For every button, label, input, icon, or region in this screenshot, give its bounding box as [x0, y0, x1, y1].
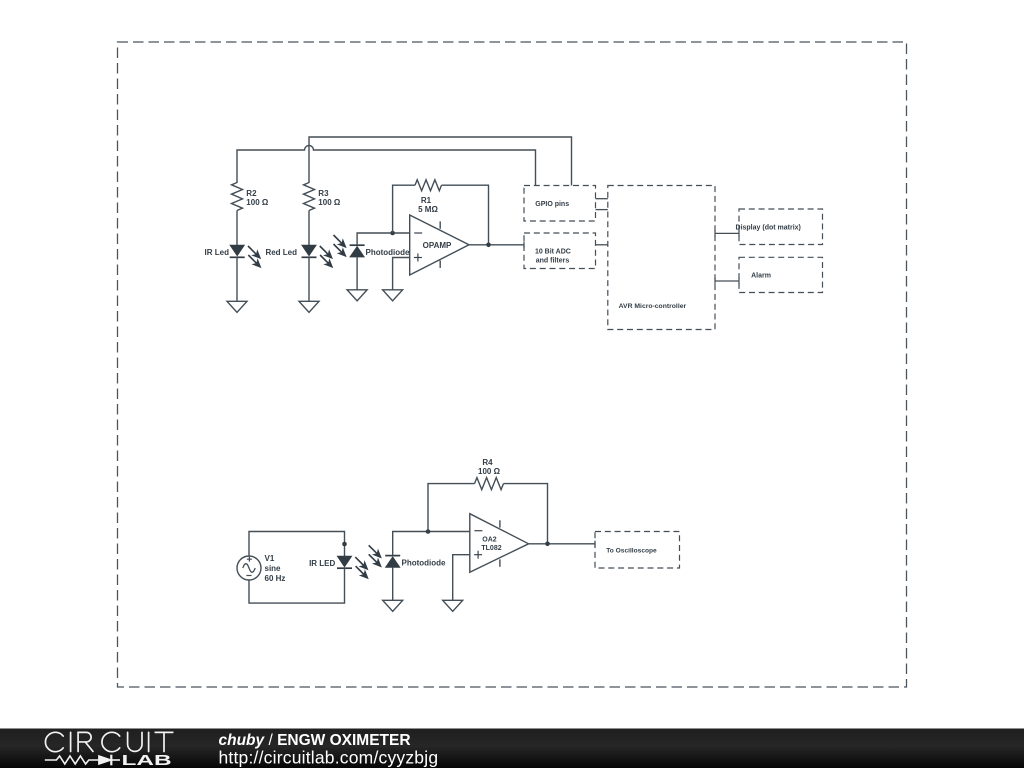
photodiode (bottom): [369, 545, 401, 567]
label To Oscilloscope: [606, 548, 657, 555]
label Photodiode: [366, 248, 411, 257]
label R1: [421, 196, 432, 205]
LED IR Led: [230, 245, 261, 267]
resistor R4: [475, 478, 504, 490]
wire OA2 output to oscilloscope: [529, 541, 595, 547]
svg-text:100 Ω: 100 Ω: [478, 467, 501, 476]
label TL082: [481, 545, 501, 552]
label R1 value 5 MΩ: [418, 205, 438, 214]
svg-text:R1: R1: [421, 196, 432, 205]
wire op-amp output to ADC: [469, 242, 524, 248]
svg-text:AVR Micro-controller: AVR Micro-controller: [619, 303, 687, 310]
wire node B: R3 top to GPIO pin: [309, 137, 572, 186]
op-amp OA2: [470, 514, 529, 573]
wire photodiode to op-amp inverting input: [357, 233, 410, 245]
label IR LED: [309, 559, 335, 568]
svg-text:Red Led: Red Led: [265, 248, 297, 257]
label Alarm: [751, 273, 771, 280]
resistor R1: [415, 180, 442, 191]
wire GPIO to AVR pin 1: [596, 198, 608, 200]
wire IR Led to ground: [236, 257, 238, 301]
svg-text:OPAMP: OPAMP: [423, 241, 452, 250]
label R2: [246, 189, 257, 198]
ground: [443, 600, 463, 611]
svg-text:V1: V1: [265, 554, 275, 563]
svg-text:TL082: TL082: [481, 545, 501, 552]
label R4: [482, 458, 493, 467]
box Display (dot matrix): [739, 209, 823, 245]
wire V1 bottom loop to IR LED cathode: [249, 568, 345, 603]
wire AVR to Alarm: [715, 278, 739, 284]
svg-text:R3: R3: [318, 189, 329, 198]
svg-text:R4: R4: [482, 458, 493, 467]
LED IR LED (bottom): [337, 556, 368, 578]
label V1: [265, 554, 275, 563]
box To Oscilloscope: [595, 532, 680, 569]
label R3: [318, 189, 329, 198]
ground: [347, 290, 367, 301]
svg-text:5 MΩ: 5 MΩ: [418, 205, 438, 214]
resistor R3: [304, 183, 315, 211]
label OPAMP: [423, 241, 452, 250]
wire GPIO to AVR pin 2: [596, 209, 608, 211]
label V1 value 60 Hz: [265, 574, 286, 583]
wire photodiode to ground: [392, 567, 394, 600]
wire R4 feedback right leg: [504, 484, 548, 544]
wire R4 feedback left leg: [428, 484, 475, 532]
box 10 Bit ADC and filters: [524, 233, 596, 269]
svg-text:60 Hz: 60 Hz: [265, 574, 286, 583]
ground: [383, 600, 403, 611]
node junction: [426, 529, 431, 534]
label Display (dot matrix): [736, 225, 801, 232]
node junction: [545, 542, 550, 547]
box AVR Micro-controller: [608, 186, 715, 330]
ground: [227, 301, 247, 312]
wire node A: R2 top to GPIO pin (hop over R3 wire): [237, 146, 536, 186]
label and filters: [536, 258, 570, 265]
svg-text:Photodiode: Photodiode: [402, 559, 447, 568]
svg-text:Alarm: Alarm: [751, 273, 771, 280]
CircuitLab logo: [45, 732, 172, 751]
svg-text:IR LED: IR LED: [309, 559, 335, 568]
label V1 value sine: [265, 564, 282, 573]
wire OA2 non-inverting input to ground: [453, 555, 470, 601]
box GPIO pins: [524, 186, 596, 222]
footer bar: [0, 729, 1024, 768]
svg-text:LAB: LAB: [122, 753, 172, 768]
svg-text:IR Led: IR Led: [205, 248, 230, 257]
resistor R2: [232, 183, 243, 211]
footer title chuby / ENGW OXIMETER: [219, 732, 411, 749]
ground: [383, 290, 403, 301]
wire feedback left leg: [393, 185, 415, 233]
voltage source V1: [237, 556, 261, 580]
wire feedback right leg: [442, 185, 489, 245]
wire photodiode to ground: [356, 257, 358, 290]
LED Red Led: [302, 245, 333, 267]
wire photodiode to op-amp OA2 inverting input: [393, 532, 470, 556]
svg-text:http://circuitlab.com/cyyzbjg: http://circuitlab.com/cyyzbjg: [219, 748, 439, 768]
wire ADC to AVR: [596, 244, 608, 246]
svg-text:Photodiode: Photodiode: [366, 248, 411, 257]
svg-text:GPIO pins: GPIO pins: [535, 201, 569, 208]
op-amp OPAMP: [410, 215, 469, 275]
label R3 value 100 Ω: [318, 198, 341, 207]
label OA2: [482, 537, 497, 544]
svg-text:and filters: and filters: [536, 258, 570, 265]
label Red Led: [265, 248, 297, 257]
node junction: [342, 542, 347, 547]
label Photodiode: [402, 559, 447, 568]
svg-text:R2: R2: [246, 189, 257, 198]
wire Red Led to ground: [308, 257, 310, 301]
wire R3 to Red Led: [308, 211, 310, 246]
svg-text:sine: sine: [265, 564, 282, 573]
svg-text:10 Bit ADC: 10 Bit ADC: [535, 249, 571, 256]
label IR Led: [205, 248, 230, 257]
wire AVR to Display: [715, 230, 739, 236]
label 10 Bit ADC: [535, 249, 571, 256]
wire op-amp non-inverting input to ground: [393, 258, 410, 290]
node junction output: [486, 243, 491, 248]
ground: [299, 301, 319, 312]
wire V1 top to IR LED anode: [249, 532, 345, 557]
svg-text:OA2: OA2: [482, 537, 497, 544]
svg-text:chuby / ENGW OXIMETER: chuby / ENGW OXIMETER: [219, 732, 411, 749]
box Alarm: [739, 257, 823, 292]
label R4 value 100 Ω: [478, 467, 501, 476]
photodiode (top): [334, 235, 365, 257]
label AVR Micro-controller: [619, 303, 687, 310]
svg-text:To Oscilloscope: To Oscilloscope: [606, 548, 657, 555]
svg-text:Display (dot matrix): Display (dot matrix): [736, 225, 801, 232]
label GPIO pins: [535, 201, 569, 208]
svg-text:100 Ω: 100 Ω: [246, 198, 269, 207]
node junction: [390, 231, 395, 236]
wire R2 to IR Led: [236, 211, 238, 246]
svg-text:100 Ω: 100 Ω: [318, 198, 341, 207]
label R2 value 100 Ω: [246, 198, 269, 207]
footer url: [219, 748, 439, 768]
